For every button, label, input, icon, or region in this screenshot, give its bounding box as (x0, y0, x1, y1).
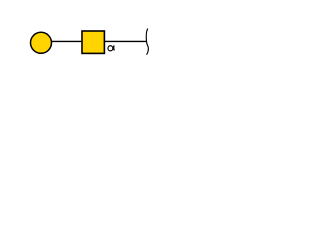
monosaccharide Gal (yellow circle) (31, 32, 52, 53)
monosaccharide GalNAc (yellow square) (82, 31, 104, 53)
wire: Gal circle to GalNAc square (41, 40, 93, 42)
linkage label alpha (drawn as paths) (108, 45, 114, 50)
reducing-end bracket (146, 29, 148, 55)
wire: GalNAc square to reducing end (93, 40, 146, 42)
